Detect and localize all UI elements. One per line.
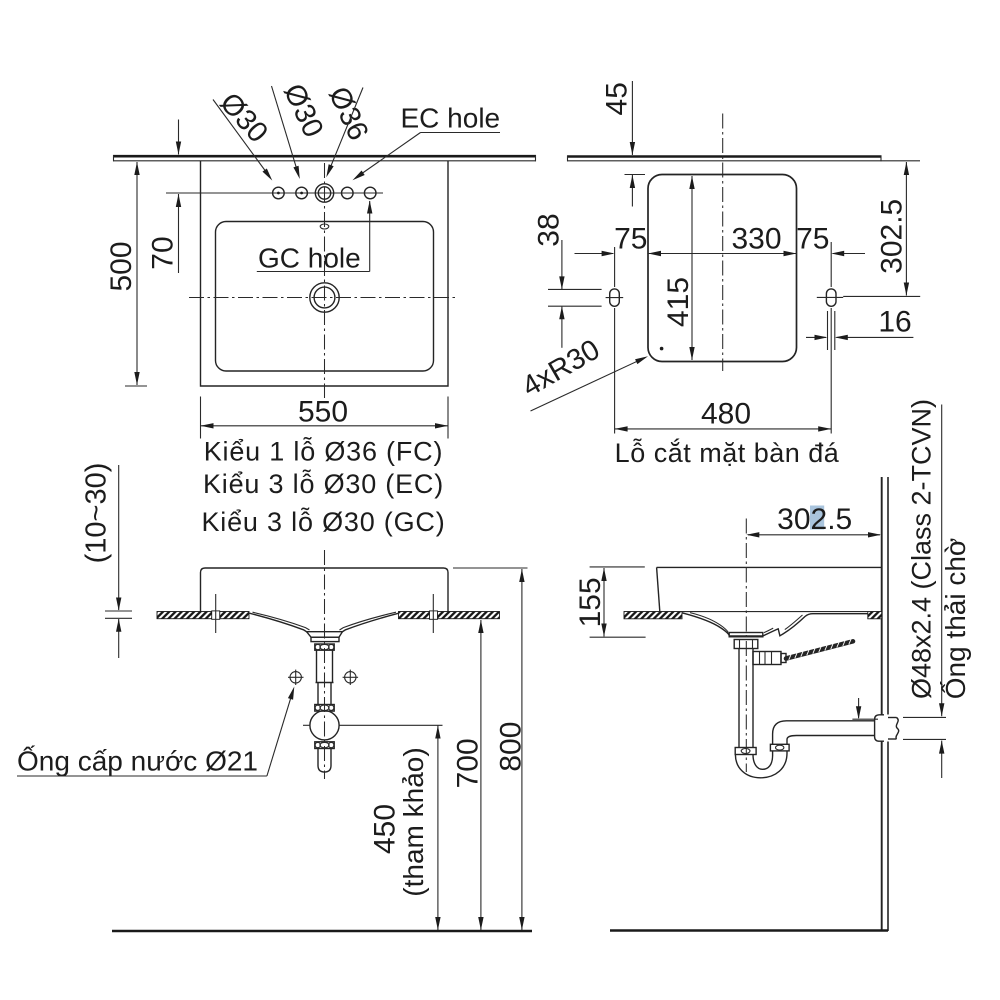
top view: countertop inner line: [113, 160, 536, 162]
side view countertop line behind basin: [682, 611, 868, 613]
4xR30 dot: [660, 347, 664, 351]
cutout edge vertical right: [432, 594, 434, 633]
tailpiece upper tube: [316, 650, 318, 682]
dimension 70 upper arrow: [178, 120, 180, 155]
lower tail pipe with round cap: [318, 749, 331, 773]
left keyhole vertical extension above: [614, 247, 616, 287]
svg-text:38: 38: [533, 213, 566, 246]
waste pipe extension lines: [852, 718, 878, 720]
side view sink top line: [657, 566, 882, 568]
hole 3 center (36mm) double circle: [315, 184, 333, 202]
cutout edge vertical left: [215, 594, 217, 633]
right water supply cross circle: [345, 672, 356, 683]
GC hole leader underline: [257, 271, 370, 273]
right keyhole vertical extension below: [830, 308, 832, 434]
dimension 415 line: [691, 176, 693, 360]
nut below trap ball: [315, 742, 334, 749]
pop-up rod tee fitting: [753, 652, 781, 665]
dimension 38 lower arrow: [561, 307, 563, 348]
dimension 10~30 upper line: [118, 465, 120, 610]
svg-text:75: 75: [796, 223, 829, 256]
svg-text:302.5: 302.5: [876, 199, 909, 274]
drain top nut: [315, 644, 334, 650]
top view vertical centerline: [324, 163, 326, 398]
drain flange trapezoid: [307, 632, 343, 638]
cutout view: countertop inner line: [567, 160, 920, 162]
dimension 45 lower arrow: [631, 175, 633, 207]
front view: countertop left hatched section: [157, 612, 249, 619]
sink inner basin rounded rectangle: [216, 222, 434, 372]
basin underside funnel outer: [250, 613, 399, 632]
dimension 302.5 top line: [748, 534, 880, 536]
svg-text:Kiểu 1 lỗ Ø36 (FC): Kiểu 1 lỗ Ø36 (FC): [204, 436, 443, 467]
P-trap U bend outer: [735, 751, 787, 778]
wall vertical line upper segments: [881, 477, 883, 715]
leader to hole 1: [213, 100, 268, 175]
elbow outer corner: [787, 736, 797, 740]
dimension 155 reference lines: [590, 566, 645, 568]
dimension Ø48 line upper: [941, 405, 943, 717]
right hanger keyhole: [826, 289, 836, 306]
P-trap right leg to elbow: [772, 734, 774, 744]
dimension 38 reference lines: [548, 288, 602, 290]
svg-text:(tham khảo): (tham khảo): [398, 747, 429, 896]
hole 5 (GC): [364, 187, 376, 199]
svg-text:45: 45: [601, 82, 634, 115]
hole 1 (30mm): [273, 187, 285, 199]
drain hole double circle: [310, 283, 339, 312]
hole 4 (EC): [342, 187, 354, 199]
side view trap nut lower left: [735, 748, 756, 755]
top view horizontal centerline: [189, 297, 457, 299]
svg-text:302.5: 302.5: [777, 503, 852, 536]
leader to hole 3: [329, 88, 363, 171]
dimension 550 extension lines: [200, 397, 202, 439]
dimension 155 line: [603, 568, 605, 637]
svg-text:155: 155: [574, 577, 607, 627]
elbow inner corner: [773, 721, 787, 734]
left keyhole vertical extension below: [614, 308, 616, 434]
svg-text:GC hole: GC hole: [258, 243, 361, 274]
side view bowl inner profile: [690, 613, 803, 633]
dimension 45 extension line: [625, 174, 646, 176]
basin underside funnel inner: [253, 612, 397, 630]
svg-text:70: 70: [147, 236, 180, 269]
waste outlet reference line: [303, 724, 310, 726]
P-trap U bend inner: [753, 751, 773, 769]
svg-text:Kiểu 3 lỗ Ø30 (GC): Kiểu 3 lỗ Ø30 (GC): [202, 506, 446, 537]
horizontal waste pipe: [787, 720, 875, 722]
front view: countertop right hatched section: [399, 612, 500, 619]
floor line right view: [610, 929, 888, 932]
4xR30 leader: [531, 358, 644, 411]
svg-text:Kiểu 3 lỗ Ø30 (EC): Kiểu 3 lỗ Ø30 (EC): [203, 468, 444, 499]
EC hole leader to hole 4: [359, 133, 421, 176]
nut above trap ball: [315, 705, 334, 712]
left keyhole cross tick: [606, 297, 624, 299]
side view tailpiece tube: [738, 649, 740, 748]
front view: countertop left notch: [212, 611, 220, 619]
side view drain locknut: [734, 640, 758, 649]
hole 2 (30mm): [296, 187, 308, 199]
dimension 45 upper arrow: [631, 81, 633, 155]
dimension 480 line: [615, 428, 832, 430]
cutout view: countertop edge line: [567, 155, 882, 158]
dimension 70 lower arrow: [178, 194, 180, 273]
tailpiece sleeve edge: [316, 682, 334, 684]
svg-text:75: 75: [614, 223, 647, 256]
svg-text:700: 700: [452, 738, 485, 788]
side view trap nut right leg: [770, 744, 789, 751]
side view countertop front hatched section: [624, 612, 682, 619]
dimension pipe marker arrow: [858, 698, 860, 718]
svg-text:Ống thải chờ: Ống thải chờ: [939, 538, 971, 700]
svg-text:800: 800: [495, 722, 528, 772]
faucet holes center line: [166, 192, 383, 194]
overflow slot oval: [320, 224, 329, 229]
dimension 330 line: [648, 253, 797, 255]
EC hole leader underline: [421, 132, 501, 134]
dimension 16 line and right arrow: [836, 336, 913, 338]
side view countertop rear hatched section: [868, 612, 882, 619]
countertop thickness reference lines: [105, 610, 132, 612]
cutout view: countertop slab end caps: [567, 156, 569, 162]
dimension 700 line: [480, 620, 482, 930]
side view drain flange: [729, 633, 763, 637]
svg-text:(10~30): (10~30): [81, 463, 113, 564]
svg-text:EC hole: EC hole: [401, 103, 501, 134]
tailpiece lower tube upper half: [317, 683, 319, 705]
front view: countertop right notch: [430, 611, 438, 619]
left water supply cross circle: [290, 672, 301, 683]
dimension 500 line: [136, 162, 138, 385]
wall flange escutcheon: [875, 715, 884, 741]
svg-text:330: 330: [731, 223, 781, 256]
top view: countertop edge line: [113, 155, 536, 158]
dimension 500 extension tick: [125, 385, 147, 387]
cutout vertical centerline: [722, 114, 724, 372]
svg-text:Ø48x2.4 (Class 2-TCVN): Ø48x2.4 (Class 2-TCVN): [907, 399, 937, 699]
keyhole slot width lines: [827, 311, 829, 350]
dimension 800 extension line: [453, 567, 528, 569]
dimension 550 line: [201, 425, 449, 427]
top view: countertop slab end caps: [113, 155, 115, 161]
sink outer rectangle: [201, 161, 449, 386]
front view vertical centerline: [324, 550, 326, 779]
dimension 10~30 lower arrow: [118, 619, 120, 658]
supply leader underline: [17, 775, 267, 777]
cutout rounded rectangle: [648, 175, 797, 362]
floor line left view: [112, 930, 532, 933]
side view bowl outer profile: [682, 613, 868, 636]
dimension Ø48 lower arrow: [941, 741, 943, 778]
svg-text:415: 415: [662, 277, 695, 327]
front view: sink rim outline: [201, 568, 449, 612]
GC hole leader vertical to hole 5: [369, 201, 371, 272]
left hanger keyhole: [610, 289, 620, 306]
dimension 450 line: [437, 726, 439, 931]
dimension 302.5 extension line: [843, 295, 920, 297]
leader to hole 2: [272, 86, 298, 172]
pop-up lever rod: [786, 641, 853, 658]
right keyhole cross tick: [817, 296, 843, 298]
302.5 highlight on digit 2: [810, 506, 824, 530]
side view sink front edge: [657, 567, 660, 611]
supply leader diagonal: [267, 692, 293, 776]
dimension 800 line: [521, 569, 523, 930]
svg-text:16: 16: [878, 306, 911, 339]
dimension 16 left arrow: [806, 336, 826, 338]
svg-text:500: 500: [105, 241, 138, 291]
svg-text:480: 480: [701, 398, 751, 431]
svg-text:Ống cấp nước Ø21: Ống cấp nước Ø21: [17, 745, 258, 777]
right keyhole vertical extension above: [830, 242, 832, 287]
drain flange bar: [311, 637, 339, 641]
trap ball: [310, 711, 339, 740]
pipe stub through wall with break: [888, 717, 897, 719]
dimension 75 left arrow: [575, 253, 614, 255]
svg-text:Lỗ cắt mặt bàn đá: Lỗ cắt mặt bàn đá: [615, 437, 840, 468]
wall vertical line lower segments: [881, 742, 883, 932]
dimension 302.5 right line: [905, 162, 907, 296]
dimension 38 upper arrow: [561, 240, 563, 289]
dimension 75 right arrow: [833, 253, 865, 255]
svg-text:550: 550: [298, 396, 348, 429]
svg-text:450: 450: [369, 804, 402, 854]
side view centerline through drain: [745, 519, 747, 773]
